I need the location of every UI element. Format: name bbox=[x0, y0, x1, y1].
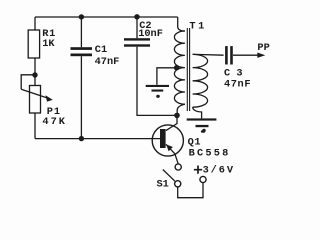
svg-text:T1: T1 bbox=[189, 21, 206, 33]
svg-text:C1: C1 bbox=[95, 44, 107, 56]
svg-text:PP: PP bbox=[257, 42, 269, 54]
svg-text:S1: S1 bbox=[157, 179, 169, 191]
svg-text:47nF: 47nF bbox=[224, 79, 251, 91]
svg-text:1K: 1K bbox=[42, 38, 55, 50]
svg-text:Q1: Q1 bbox=[188, 136, 202, 148]
svg-text:BC558: BC558 bbox=[189, 148, 231, 160]
svg-text:47K: 47K bbox=[42, 116, 67, 128]
svg-text:47nF: 47nF bbox=[95, 56, 120, 68]
svg-text:10nF: 10nF bbox=[138, 28, 163, 40]
svg-text:3/6V: 3/6V bbox=[203, 164, 235, 176]
